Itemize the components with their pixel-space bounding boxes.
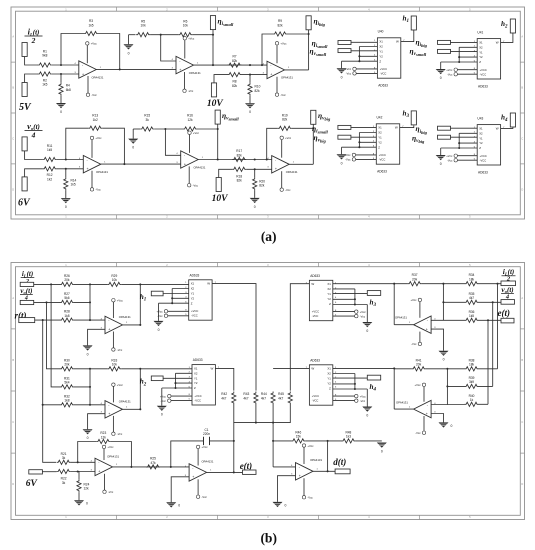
svg-text:5V: 5V (19, 102, 32, 113)
wire: rail down to C1 net (233, 423, 235, 441)
svg-text:Y1: Y1 (378, 136, 382, 140)
junction R9/eta_i_big (308, 33, 310, 35)
resistor R30 (60, 358, 74, 371)
connector vo/4 (b left) (20, 300, 34, 304)
svg-text:+VCC: +VCC (480, 68, 487, 72)
svg-text:Z: Z (329, 302, 331, 306)
junction R16/eta_v_small (217, 128, 219, 130)
connector h1 (b) (151, 291, 163, 296)
wire: R19 to output node (292, 128, 314, 164)
multiplier U42 AD633 (373, 116, 404, 174)
+Vcc stub U40 (345, 67, 356, 71)
junction b4 node top (446, 368, 448, 370)
wire: B7 to -Vcc (303, 478, 305, 495)
ground at B3 +input (439, 351, 449, 362)
svg-text:47k: 47k (150, 461, 156, 465)
wire: B6 to -Vcc (197, 479, 199, 495)
svg-text:4k7: 4k7 (278, 396, 283, 400)
svg-text:Y2: Y2 (479, 141, 483, 145)
+Vcc stub U41 (446, 68, 457, 72)
wire: +Vcc to B7 (303, 447, 305, 464)
multiplier AD633 (185, 273, 216, 320)
wire: A3 output (285, 69, 309, 71)
resistor R11 (43, 144, 57, 162)
svg-text:OPA4131: OPA4131 (119, 315, 131, 319)
svg-text:+Vcc: +Vcc (117, 383, 124, 387)
svg-text:+Vcc: +Vcc (410, 298, 417, 302)
wire: B7 output to d(t) (313, 470, 335, 472)
svg-text:X2: X2 (379, 45, 383, 49)
junction U40 Z tie (358, 60, 360, 62)
svg-text:+: + (82, 72, 84, 76)
-Vcc stub AD633 #2 (161, 399, 171, 403)
svg-text:+Vcc: +Vcc (95, 136, 102, 140)
svg-text:2: 2 (31, 36, 36, 45)
connector eta_i_big to U41 (438, 40, 451, 44)
svg-text:0: 0 (132, 146, 134, 150)
svg-text:+: + (275, 167, 277, 171)
wire: b1 output to feedback node (123, 284, 141, 325)
resistor R28 (60, 310, 74, 323)
junction e bus (b right) (487, 319, 489, 321)
svg-text:+: + (184, 162, 186, 166)
svg-text:X1: X1 (191, 282, 195, 286)
svg-text:+: + (192, 475, 194, 479)
resistor R37 (408, 273, 422, 286)
multiplier AD633 (306, 274, 337, 321)
wire: feedback node down to output (327, 441, 329, 471)
svg-text:Y1: Y1 (327, 377, 331, 381)
ground at B6 +input (166, 502, 180, 507)
wire: A6 output (289, 163, 313, 165)
svg-text:+VCC: +VCC (380, 67, 387, 71)
svg-text:Y2: Y2 (194, 381, 198, 385)
wire: B4 +input to ground (431, 414, 443, 423)
wire: A3 feedback up to R9 (262, 34, 273, 65)
svg-text:10V: 10V (212, 194, 229, 204)
junction b1 output/feedback (139, 283, 141, 285)
junction rail R44 (272, 422, 274, 424)
wire: #1 supply pins (168, 311, 189, 316)
svg-text:U42: U42 (377, 116, 383, 120)
svg-text:X1: X1 (327, 367, 331, 371)
-Vcc stub B5 (103, 490, 114, 494)
wire: U42 W output to h3 (400, 126, 414, 128)
+Vcc stub B3 (410, 298, 421, 302)
svg-text:0: 0 (341, 75, 343, 79)
svg-text:5k6: 5k6 (64, 296, 69, 300)
junction B7 output (327, 470, 329, 472)
connector vo/4 (b right) (501, 300, 515, 305)
svg-text:X1: X1 (379, 40, 383, 44)
svg-text:-VCC: -VCC (379, 158, 386, 162)
wire: B6 +input to ground (171, 477, 189, 503)
svg-text:0: 0 (87, 436, 89, 440)
svg-text:OPA4131: OPA4131 (92, 75, 104, 79)
svg-text:1k3: 1k3 (346, 435, 351, 439)
svg-text:6k8: 6k8 (66, 88, 71, 92)
wire: U40 X2/Y2 tie (359, 47, 377, 62)
-Vcc stub U40 (346, 72, 356, 76)
resistor R23 (96, 431, 110, 444)
connector iL/2 (b right) (501, 281, 516, 286)
svg-text:0: 0 (158, 328, 160, 332)
svg-text:6V: 6V (18, 197, 31, 208)
svg-text:+: + (108, 328, 110, 332)
-Vcc stub B6 (196, 495, 207, 499)
junction b2 output (139, 408, 141, 410)
svg-text:W: W (207, 282, 210, 286)
junction #1 Y2 tie (171, 297, 173, 299)
wire: +Vcc to B1 (112, 302, 114, 318)
svg-text:0: 0 (254, 205, 256, 209)
op-amp B2 OPA4131 (101, 399, 132, 418)
input label iL(t)/2 (b right) (502, 267, 516, 283)
resistor R12 (43, 167, 57, 182)
connector h3 (411, 111, 416, 125)
junction #4 Y2 tie (354, 383, 356, 385)
svg-text:20k: 20k (412, 278, 418, 282)
wire: R14 leads (65, 169, 67, 198)
svg-text:C: C (12, 420, 14, 424)
junction r bus at R32 (42, 404, 44, 406)
svg-text:10k: 10k (112, 278, 118, 282)
svg-text:-Vcc: -Vcc (117, 432, 123, 436)
wire: X1 input U40 (351, 41, 377, 43)
wire: U41 supply pins (457, 70, 477, 75)
junction C1/summing rail (233, 440, 235, 442)
junction #1 Z tie (171, 302, 173, 304)
svg-text:X1: X1 (479, 127, 483, 131)
svg-text:D: D (12, 482, 14, 486)
svg-text:OPA4131: OPA4131 (189, 71, 201, 75)
resistor R9 (273, 19, 287, 36)
ground at U40 (337, 68, 347, 79)
svg-text:+VCC: +VCC (312, 310, 319, 314)
svg-text:+: + (87, 167, 89, 171)
svg-text:+: + (426, 412, 428, 416)
resistor R4 (59, 83, 71, 96)
connector input vo/4 (22, 137, 27, 151)
svg-text:AD633: AD633 (378, 84, 388, 88)
svg-text:1k5: 1k5 (469, 314, 474, 318)
svg-text:Y2: Y2 (479, 55, 483, 59)
-Vcc stub B7 (302, 496, 313, 500)
svg-text:AD633: AD633 (190, 273, 200, 277)
input label vo(t)/4 (25, 121, 43, 140)
wire: A4 output to A5 +input (101, 163, 181, 165)
wire: +Vcc to B6 (197, 449, 199, 466)
svg-text:OPA4131: OPA4131 (119, 399, 131, 403)
svg-text:-Vcc: -Vcc (345, 158, 351, 162)
svg-text:-Vcc: -Vcc (91, 93, 97, 97)
junction b1 node R28 (89, 319, 91, 321)
resistor R24 (77, 479, 90, 492)
svg-text:0: 0 (440, 76, 442, 80)
svg-text:AD633: AD633 (478, 84, 488, 88)
resistor R25 (146, 457, 160, 470)
wire: eta_i_small node to A2 output (212, 30, 214, 66)
junction U41 Z tie (458, 61, 460, 63)
svg-text:10k: 10k (141, 24, 147, 28)
svg-text:A: A (521, 35, 523, 39)
wire: U40 W output to h1 (401, 30, 414, 42)
svg-text:B: B (12, 358, 14, 362)
svg-text:+Vcc: +Vcc (280, 42, 287, 46)
connector input iL/2 (22, 43, 27, 57)
wire: R1,R2 to op-amp A inputs (52, 65, 79, 74)
svg-text:-Vcc: -Vcc (346, 72, 352, 76)
svg-text:82k: 82k (237, 153, 243, 157)
wire: B3 +input to ground (431, 329, 443, 351)
wire: A1 to -Vcc (87, 76, 89, 93)
wire: b2 output to feedback node (123, 369, 141, 410)
wire: b1 +input to ground (88, 329, 105, 345)
svg-text:10V: 10V (207, 99, 224, 109)
wire: 6V source to R12 (25, 169, 43, 177)
svg-text:Z: Z (378, 145, 380, 149)
svg-text:0: 0 (178, 504, 180, 508)
svg-text:15k: 15k (296, 435, 302, 439)
svg-text:+Vcc: +Vcc (157, 310, 164, 314)
svg-text:-Vcc: -Vcc (157, 314, 163, 318)
junction iL bus (b right) (496, 283, 498, 285)
junction b5 output (130, 466, 132, 468)
svg-text:Y1: Y1 (191, 292, 195, 296)
panel (b) sheet frame (11, 263, 525, 520)
wire: vo line to R27 (34, 301, 60, 303)
ground under R4 (56, 103, 66, 114)
svg-text:vo(t): vo(t) (20, 287, 32, 295)
junction rail/R46 (272, 440, 274, 442)
svg-text:3k9: 3k9 (469, 380, 474, 384)
svg-text:10k: 10k (112, 363, 118, 367)
svg-text:220n: 220n (203, 432, 210, 436)
svg-text:-VCC: -VCC (480, 158, 487, 162)
wire: eta_i_big connector stub (308, 30, 310, 34)
wire: R11,R12 to A4 inputs (57, 160, 84, 169)
-Vcc stub U42 (345, 158, 355, 162)
resistor R36 (465, 310, 479, 323)
svg-text:+: + (108, 412, 110, 416)
svg-text:OPA4131: OPA4131 (96, 170, 108, 174)
svg-text:20k: 20k (64, 363, 70, 367)
svg-text:+: + (270, 73, 272, 77)
wire: 6V to R22 (42, 471, 56, 473)
+Vcc stub AD633 #2 (160, 394, 171, 398)
connector d(t) output (335, 469, 350, 474)
junction #2 Y2 tie (174, 382, 176, 384)
svg-text:(a): (a) (261, 229, 277, 244)
junction U42 Y2 tie (358, 141, 360, 143)
op-amp B6 OPA4131 (185, 459, 214, 481)
resistor R45 (278, 392, 292, 405)
wire: #3 W output down to R45 (290, 284, 309, 391)
ground at B2 +input (83, 429, 93, 440)
wire: B7 +input to ground (278, 476, 296, 502)
svg-text:-Vcc: -Vcc (415, 431, 421, 435)
+Vcc stub B4 (415, 383, 426, 387)
-Vcc stub op-amp A5 (188, 184, 199, 188)
junction #3 X1/B3 output (393, 283, 395, 285)
wire: #3 X2/Y2 tie (333, 289, 355, 305)
wire: A5 output to A6 -input (198, 159, 272, 161)
svg-text:0: 0 (249, 110, 251, 114)
junction R19/eta_v_big (312, 127, 314, 129)
svg-text:Z: Z (479, 146, 481, 150)
wire: R30-R32 to summing node (74, 369, 107, 405)
wire: #1 X2/Y2 tie (172, 289, 189, 304)
svg-text:C: C (521, 420, 523, 424)
svg-text:Y1: Y1 (194, 376, 198, 380)
svg-text:4k7: 4k7 (243, 396, 248, 400)
resistor R5 (136, 19, 150, 36)
-Vcc stub AD633 #4 (355, 399, 366, 403)
resistor R46 (291, 430, 305, 443)
wire: R16 to output node (197, 128, 218, 130)
svg-text:-Vcc: -Vcc (307, 496, 313, 500)
svg-text:+Vcc: +Vcc (91, 42, 98, 46)
svg-text:U41: U41 (477, 30, 483, 34)
wire: R26-R28 to summing node (74, 284, 107, 320)
svg-text:OPA4131: OPA4131 (194, 166, 206, 170)
wire: to R24 (78, 472, 79, 480)
multiplier AD633 (189, 358, 220, 405)
svg-text:-Vcc: -Vcc (280, 93, 286, 97)
wire: +Vcc to B5 (103, 449, 105, 460)
wire: #4 supply pins (333, 396, 355, 401)
wire: B3 to -Vcc (419, 332, 421, 343)
svg-text:1k8: 1k8 (64, 314, 69, 318)
svg-text:Y2: Y2 (327, 297, 331, 301)
svg-text:+Vcc: +Vcc (117, 299, 124, 303)
svg-text:82k: 82k (259, 184, 265, 188)
connector h1 (411, 16, 416, 30)
junction b2 output/feedback (139, 368, 141, 370)
+Vcc stub B2 (112, 383, 124, 387)
connector eta_v_big (row2) (311, 110, 316, 124)
op-amp A2 OPA4131 (172, 56, 202, 75)
junction #3 Z tie (354, 303, 356, 305)
wire: r line to R28 (35, 319, 60, 321)
wire: #3 X1 from B3 output net (333, 283, 394, 285)
resistor R35 (465, 292, 479, 305)
svg-text:AD633: AD633 (310, 358, 320, 362)
wire: #2 X2/Y2 tie (176, 373, 193, 388)
svg-text:+Vcc: +Vcc (360, 394, 367, 398)
svg-text:18k: 18k (469, 363, 475, 367)
resistor R19 (278, 113, 292, 130)
junction R21/feedback (b5) (77, 461, 79, 463)
wire: e bus down to R40 (479, 320, 489, 404)
svg-text:+Vcc: +Vcc (446, 68, 453, 72)
svg-text:OPA4131: OPA4131 (286, 170, 298, 174)
connector eta_i_big to U43 (438, 126, 451, 130)
wire: Y1 input U43 (451, 136, 478, 138)
resistor R39 (465, 376, 479, 389)
resistor R3 (84, 19, 98, 36)
svg-text:5k4: 5k4 (64, 381, 69, 385)
-Vcc stub op-amp A3 (275, 93, 286, 97)
-Vcc stub U41 (447, 73, 457, 77)
wire: R37 feedback net (394, 283, 443, 285)
-Vcc stub AD633 #3 (355, 314, 366, 318)
svg-text:-Vcc: -Vcc (108, 490, 114, 494)
op-amp A1 OPA4131 (74, 61, 103, 80)
wire: A5 to -Vcc (188, 166, 190, 183)
wire: B3 output up to X1 net (394, 284, 413, 325)
ground at AD633 #2 (157, 406, 167, 417)
wire: R13 to output node (102, 128, 124, 164)
resistor R2 (38, 72, 52, 87)
svg-text:82k: 82k (277, 23, 283, 27)
wire: R8 to A3 +input (242, 74, 268, 76)
svg-text:1k2: 1k2 (47, 177, 52, 181)
wire: b2 +input to ground (88, 414, 105, 430)
wire: 10V to R8 (214, 75, 228, 83)
svg-text:9k8: 9k8 (42, 54, 47, 58)
svg-text:-Vcc: -Vcc (117, 348, 123, 352)
op-amp A5 OPA4131 (176, 151, 206, 170)
svg-text:e(t): e(t) (498, 308, 511, 318)
wire: U43 X2/Y2 tie (459, 133, 477, 148)
svg-text:+Vcc: +Vcc (307, 444, 314, 448)
wire: +Vcc to A1 (86, 45, 88, 63)
wire: vo bus down to R39 (479, 302, 493, 386)
svg-text:Z: Z (194, 386, 196, 390)
svg-text:+: + (299, 474, 301, 478)
svg-text:Y2: Y2 (191, 296, 195, 300)
wire: R33 to X1 of AD633 #2 (b2 output net) (121, 368, 192, 370)
svg-text:3k: 3k (62, 481, 66, 485)
svg-text:AD633: AD633 (377, 170, 387, 174)
wire: R3 to output node (98, 34, 120, 70)
junction on A2 output (212, 64, 214, 66)
svg-text:-VCC: -VCC (194, 398, 201, 402)
wire: A1 output to A2 +input (96, 68, 176, 70)
wire: A6 feedback up to R19 (267, 128, 278, 159)
+Vcc stub U43 (446, 154, 457, 158)
connector eta_v_small to U40 (338, 49, 351, 53)
panel (a) sheet frame (11, 7, 525, 219)
wire: ground to R5 (129, 34, 136, 36)
junction R12/R14 (65, 168, 67, 170)
svg-text:X2: X2 (479, 45, 483, 49)
svg-text:-Vcc: -Vcc (202, 495, 208, 499)
wire: #4 W output to R44 net (273, 367, 309, 369)
resistor R27 (60, 292, 74, 305)
wire: #3 Z to ground (333, 305, 368, 323)
resistor R15 (140, 114, 154, 131)
+Vcc stub op-amp A6 (280, 136, 292, 140)
wire: R35 line from vo (443, 301, 501, 303)
wire: Y1 input U41 (451, 51, 478, 53)
+Vcc stub U42 (344, 153, 355, 157)
op-amp B1 OPA4131 (101, 315, 132, 334)
connector e(t) (b right) (501, 318, 514, 323)
svg-text:+: + (179, 68, 181, 72)
multiplier U41 AD633 (474, 30, 505, 88)
ground at U41 (436, 69, 446, 80)
op-amp A4 OPA4131 (79, 156, 108, 175)
wire: +Vcc to A3 (276, 45, 278, 63)
ground at U43 (436, 155, 446, 166)
svg-text:W: W (311, 367, 314, 371)
-Vcc stub op-amp A1 (86, 93, 97, 97)
svg-text:+: + (98, 470, 100, 474)
svg-text:A: A (12, 35, 14, 39)
wire: Y1 input U40 (351, 50, 377, 52)
